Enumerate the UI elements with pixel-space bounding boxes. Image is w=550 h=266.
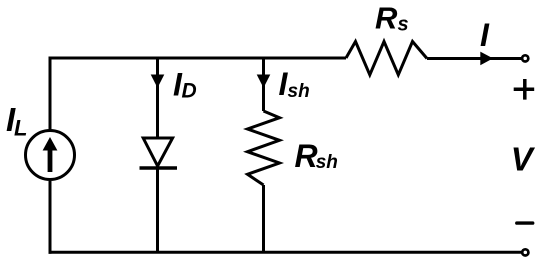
svg-text:s: s — [398, 14, 409, 36]
resistor Rs — [346, 42, 427, 75]
svg-text:I: I — [480, 17, 490, 53]
arrow ID — [151, 75, 165, 88]
label plus — [514, 79, 535, 100]
wire left rail lower — [49, 181, 52, 254]
wire bottom horizontal — [49, 251, 522, 254]
wire top left horizontal — [50, 57, 346, 60]
label ID — [173, 66, 197, 102]
label Rs — [375, 1, 409, 36]
wire diode branch upper — [156, 58, 159, 139]
label Ish — [279, 66, 310, 102]
svg-text:sh: sh — [288, 81, 310, 102]
terminal positive — [522, 55, 528, 61]
svg-text:L: L — [14, 116, 27, 141]
label Rsh — [295, 138, 338, 174]
wire shunt branch upper — [262, 58, 265, 111]
svg-text:sh: sh — [316, 152, 338, 173]
resistor Rsh — [248, 111, 280, 185]
wire shunt branch lower — [262, 185, 265, 252]
arrow Ish — [257, 75, 271, 88]
diode D — [140, 138, 178, 168]
svg-text:V: V — [511, 140, 536, 177]
label minus — [517, 221, 533, 224]
arrow I output — [480, 52, 493, 66]
svg-text:R: R — [375, 1, 398, 36]
wire diode branch lower — [156, 168, 159, 252]
terminal negative — [522, 249, 528, 255]
svg-text:D: D — [182, 79, 197, 102]
label IL — [6, 101, 27, 141]
current source IL — [26, 131, 75, 180]
wire left rail upper — [49, 57, 52, 130]
wire Rs to output terminal — [427, 57, 522, 60]
label I output — [480, 17, 490, 53]
svg-text:R: R — [295, 138, 318, 174]
label V — [511, 140, 536, 177]
